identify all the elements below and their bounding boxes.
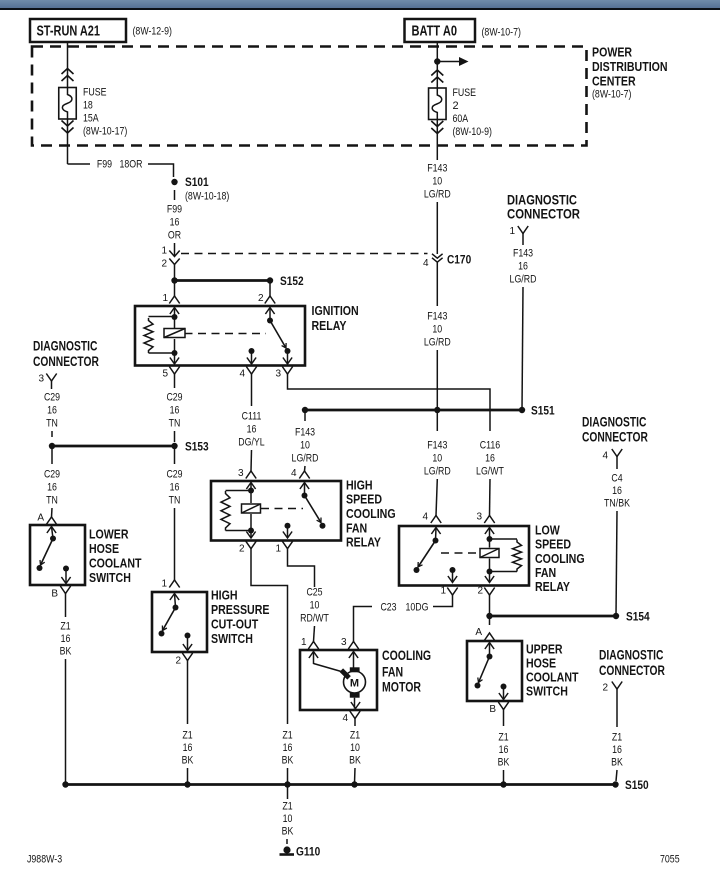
svg-text:HIGH: HIGH	[211, 589, 238, 603]
svg-text:(8W-10-7): (8W-10-7)	[482, 27, 521, 39]
splice S152	[171, 277, 177, 283]
dashed actuator link (ignition relay)	[185, 333, 267, 335]
svg-text:16: 16	[283, 742, 293, 754]
svg-text:60A: 60A	[453, 113, 469, 125]
wire F99 16 OR from S101 to connector	[174, 190, 176, 200]
svg-text:2: 2	[239, 544, 245, 555]
svg-text:16: 16	[170, 405, 180, 417]
svg-text:BK: BK	[282, 826, 294, 838]
ignition relay pin 4	[246, 367, 256, 375]
svg-text:(8W-12-9): (8W-12-9)	[133, 26, 172, 38]
svg-text:15A: 15A	[83, 113, 99, 125]
svg-text:1: 1	[275, 544, 281, 555]
svg-text:A: A	[475, 627, 482, 638]
svg-text:2: 2	[453, 100, 459, 112]
svg-text:4: 4	[602, 451, 608, 462]
svg-text:TN/BK: TN/BK	[604, 498, 630, 510]
wire ST-RUN A21 to fuse 18	[67, 42, 69, 88]
svg-text:BK: BK	[349, 755, 361, 767]
svg-text:10: 10	[300, 440, 310, 452]
relay: high speed cooling fan relay	[211, 481, 341, 541]
svg-text:F99: F99	[167, 204, 182, 216]
wire S152 to ignition relay pin 2	[269, 281, 271, 297]
svg-text:FUSE: FUSE	[453, 87, 477, 99]
svg-text:(8W-10-9): (8W-10-9)	[453, 126, 492, 138]
svg-text:1: 1	[161, 579, 167, 590]
svg-text:A: A	[37, 513, 44, 524]
svg-text:F143: F143	[427, 440, 447, 452]
high pressure switch pin 2	[182, 653, 192, 661]
svg-text:Z1: Z1	[498, 732, 508, 744]
svg-text:F143: F143	[513, 248, 533, 260]
svg-text:OR: OR	[168, 230, 181, 242]
wire F99 18OR from fuse 18 to S101	[67, 127, 69, 164]
svg-text:16: 16	[612, 485, 622, 497]
svg-text:LG/RD: LG/RD	[424, 189, 451, 201]
svg-text:LG/RD: LG/RD	[292, 453, 319, 465]
low speed relay pin 2	[484, 588, 494, 596]
svg-text:TN: TN	[46, 495, 58, 507]
svg-text:LG/RD: LG/RD	[424, 466, 451, 478]
svg-text:S101: S101	[185, 177, 209, 189]
svg-text:Z1: Z1	[350, 730, 360, 742]
svg-text:HOSE: HOSE	[526, 657, 556, 671]
svg-text:BK: BK	[60, 646, 72, 658]
svg-text:LG/RD: LG/RD	[424, 337, 451, 349]
svg-text:DIAGNOSTIC: DIAGNOSTIC	[33, 339, 98, 354]
node BATT A0 feed	[405, 19, 476, 42]
svg-text:C29: C29	[44, 469, 60, 481]
dashed actuator link (high speed relay)	[261, 508, 303, 510]
svg-text:2: 2	[477, 586, 483, 597]
switch: lower hose coolant switch	[30, 525, 85, 585]
svg-text:Z1: Z1	[60, 621, 70, 633]
wire C29 16 TN from S153 to lower hose coolant switch	[51, 446, 53, 464]
relay: low speed cooling fan relay	[399, 526, 529, 586]
svg-text:16: 16	[499, 744, 509, 756]
svg-text:4: 4	[291, 468, 297, 479]
ignition relay pin 5	[169, 367, 179, 375]
svg-text:3: 3	[38, 374, 44, 385]
svg-text:PRESSURE: PRESSURE	[211, 603, 270, 617]
svg-text:B: B	[489, 704, 496, 715]
svg-text:HOSE: HOSE	[89, 542, 119, 556]
svg-text:10: 10	[310, 600, 320, 612]
wire F143 10 LG/RD from C170 to S151	[436, 262, 438, 306]
svg-text:3: 3	[476, 512, 482, 523]
svg-text:BK: BK	[282, 755, 294, 767]
svg-text:CONNECTOR: CONNECTOR	[507, 207, 580, 222]
wire Z1 16 BK high pressure switch to S150	[187, 668, 189, 724]
svg-text:2: 2	[602, 683, 608, 694]
svg-text:SPEED: SPEED	[346, 493, 382, 507]
svg-text:16: 16	[518, 261, 528, 273]
svg-text:C23: C23	[380, 602, 396, 614]
switch contacts of high speed relay	[300, 483, 309, 490]
svg-text:18: 18	[83, 100, 93, 112]
svg-text:RELAY: RELAY	[535, 580, 571, 594]
svg-text:4: 4	[239, 369, 245, 380]
svg-text:G110: G110	[296, 847, 320, 859]
wire C23 10DG low speed relay pin 1 to fan motor pin 3	[433, 598, 453, 607]
motor: cooling fan motor	[300, 650, 377, 710]
svg-text:TN: TN	[169, 495, 181, 507]
svg-text:Z1: Z1	[612, 732, 622, 744]
svg-text:LOWER: LOWER	[89, 528, 129, 542]
svg-text:2: 2	[161, 259, 167, 270]
wire C29 16 TN from ignition relay pin 5 to S153	[174, 382, 176, 388]
svg-text:Z1: Z1	[182, 730, 192, 742]
wire S152 to ignition relay pin 1	[174, 281, 176, 297]
svg-text:16: 16	[247, 424, 257, 436]
svg-text:10: 10	[350, 742, 360, 754]
svg-text:COOLANT: COOLANT	[89, 557, 142, 571]
wire Z1 16 BK upper hose switch to S150	[503, 717, 505, 726]
svg-text:Z1: Z1	[282, 801, 292, 813]
svg-text:F99: F99	[97, 159, 112, 171]
svg-text:TN: TN	[169, 418, 181, 430]
svg-text:CONNECTOR: CONNECTOR	[33, 354, 99, 369]
svg-text:4: 4	[422, 512, 428, 523]
wire from BATT A0 with branch arrow	[436, 42, 438, 88]
svg-text:FAN: FAN	[382, 665, 403, 680]
svg-text:10: 10	[283, 813, 293, 825]
svg-text:16: 16	[170, 217, 180, 229]
splice S101	[171, 179, 177, 185]
svg-text:ST-RUN A21: ST-RUN A21	[37, 23, 101, 40]
svg-text:C25: C25	[306, 587, 322, 599]
coil of high speed relay	[242, 504, 261, 513]
power distribution center enclosure	[32, 47, 587, 146]
upper hose switch pin B	[498, 702, 508, 710]
svg-text:1: 1	[161, 246, 167, 257]
svg-text:M: M	[350, 678, 359, 690]
svg-text:C111: C111	[242, 411, 262, 423]
svg-text:Z1: Z1	[282, 730, 292, 742]
svg-text:LOW: LOW	[535, 524, 560, 538]
svg-text:S151: S151	[531, 406, 555, 418]
svg-text:2: 2	[258, 293, 264, 304]
high speed relay pin 1	[282, 541, 292, 549]
svg-text:RD/WT: RD/WT	[300, 613, 329, 625]
svg-text:TN: TN	[46, 418, 58, 430]
svg-text:IGNITION: IGNITION	[312, 304, 359, 318]
svg-text:16: 16	[612, 744, 622, 756]
svg-text:S150: S150	[625, 780, 649, 792]
splice S153	[49, 443, 55, 449]
fuse F18 15A	[59, 88, 77, 120]
dashed connector interface line	[181, 253, 428, 255]
svg-text:4: 4	[342, 713, 348, 724]
wire Z1 16 BK lower hose switch to S150	[65, 601, 67, 617]
svg-text:3: 3	[341, 637, 347, 648]
svg-text:16: 16	[183, 742, 193, 754]
fan motor armature	[344, 671, 366, 693]
svg-text:4: 4	[423, 258, 429, 269]
dashed actuator link (low speed relay)	[441, 552, 480, 554]
high speed relay pin 2	[246, 541, 256, 549]
svg-text:COOLING: COOLING	[346, 507, 396, 521]
splice S154	[486, 613, 492, 619]
svg-text:F143: F143	[427, 163, 447, 175]
wire C116 16 LG/WT ignition relay pin 3 to low speed relay pin 3	[288, 382, 491, 431]
svg-text:CONNECTOR: CONNECTOR	[582, 430, 648, 445]
svg-text:7055: 7055	[660, 854, 680, 866]
svg-text:16: 16	[485, 453, 495, 465]
svg-text:3: 3	[275, 369, 281, 380]
wire Z1 10 BK bus to ground	[287, 785, 289, 800]
fan motor pin 4	[350, 711, 360, 719]
svg-text:FUSE: FUSE	[83, 87, 107, 99]
svg-text:(8W-10-18): (8W-10-18)	[185, 191, 229, 203]
svg-text:SWITCH: SWITCH	[89, 571, 131, 585]
connector C170 pin 4	[432, 254, 443, 258]
svg-text:1: 1	[509, 226, 515, 237]
svg-text:DG/YL: DG/YL	[238, 437, 264, 449]
svg-text:DIAGNOSTIC: DIAGNOSTIC	[507, 193, 577, 208]
svg-text:COOLING: COOLING	[382, 648, 431, 663]
wire Z1 16 BK high speed relay pin 2 to S150 and G110 column	[251, 556, 288, 724]
ground G110	[283, 846, 290, 853]
svg-text:MOTOR: MOTOR	[382, 680, 421, 695]
svg-text:C4: C4	[611, 473, 622, 485]
svg-text:BATT A0: BATT A0	[412, 23, 458, 40]
switch: upper hose coolant switch	[467, 641, 522, 701]
svg-text:10: 10	[432, 176, 442, 188]
svg-text:S154: S154	[626, 612, 650, 624]
svg-text:CENTER: CENTER	[592, 75, 636, 89]
svg-text:CUT-OUT: CUT-OUT	[211, 618, 258, 632]
wire S154 to upper hose coolant switch pin A	[489, 616, 491, 625]
svg-text:(8W-10-17): (8W-10-17)	[83, 126, 127, 138]
wire C29 16 TN from S153 to high pressure switch	[174, 446, 176, 464]
svg-text:DIAGNOSTIC: DIAGNOSTIC	[582, 415, 647, 430]
svg-text:F143: F143	[427, 311, 447, 323]
svg-text:LG/WT: LG/WT	[476, 466, 504, 478]
wire F143 10 LG/RD from S151 to high speed relay pin 4	[304, 410, 306, 421]
svg-text:2: 2	[175, 656, 181, 667]
wire C25 10 RD/WT high speed relay pin 1 to fan motor pin 1	[288, 556, 315, 587]
switch: high pressure cut-out switch	[152, 592, 207, 652]
svg-text:HIGH: HIGH	[346, 479, 373, 493]
relay: ignition relay	[135, 306, 305, 366]
svg-text:FAN: FAN	[346, 522, 367, 536]
svg-text:BK: BK	[498, 757, 510, 769]
svg-text:UPPER: UPPER	[526, 643, 563, 657]
svg-text:B: B	[51, 589, 58, 600]
svg-text:S152: S152	[280, 276, 304, 288]
svg-text:10: 10	[432, 453, 442, 465]
svg-text:C170: C170	[447, 255, 471, 267]
svg-text:10: 10	[432, 324, 442, 336]
splice S151	[302, 407, 308, 413]
svg-text:1: 1	[162, 293, 168, 304]
switch contacts of ignition relay	[265, 308, 274, 315]
svg-text:RELAY: RELAY	[312, 319, 348, 333]
svg-text:16: 16	[47, 482, 57, 494]
coil branch of low speed relay	[485, 528, 494, 535]
svg-text:FAN: FAN	[535, 566, 556, 580]
svg-text:16: 16	[61, 633, 71, 645]
svg-text:J988W-3: J988W-3	[27, 854, 62, 866]
svg-text:LG/RD: LG/RD	[510, 274, 537, 286]
svg-text:SPEED: SPEED	[535, 538, 571, 552]
svg-text:RELAY: RELAY	[346, 536, 382, 550]
svg-text:CONNECTOR: CONNECTOR	[599, 663, 665, 678]
svg-text:POWER: POWER	[592, 46, 632, 60]
svg-text:5: 5	[162, 369, 168, 380]
ignition relay pin 3	[282, 367, 292, 375]
svg-text:SWITCH: SWITCH	[526, 685, 568, 699]
svg-text:3: 3	[238, 468, 244, 479]
svg-text:(8W-10-7): (8W-10-7)	[592, 89, 631, 101]
wire F143 10 LG/RD fuse 2 to C170	[436, 128, 438, 161]
svg-text:18OR: 18OR	[120, 159, 143, 171]
svg-text:C29: C29	[166, 392, 182, 404]
wire F143 10 LG/RD from S151 to low speed relay pin 4	[436, 410, 438, 431]
svg-text:10DG: 10DG	[406, 602, 429, 614]
wire C111 16 DG/YL ignition relay pin 4 to high speed relay pin 3	[251, 382, 253, 406]
coil of ignition relay	[164, 329, 185, 338]
svg-text:16: 16	[170, 482, 180, 494]
svg-text:SWITCH: SWITCH	[211, 632, 253, 646]
svg-text:S153: S153	[185, 442, 209, 454]
svg-text:C29: C29	[44, 392, 60, 404]
svg-text:COOLING: COOLING	[535, 552, 585, 566]
svg-text:BK: BK	[182, 755, 194, 767]
svg-text:C29: C29	[166, 469, 182, 481]
svg-text:1: 1	[301, 637, 307, 648]
switch contacts of low speed relay	[431, 528, 440, 535]
svg-text:1: 1	[440, 586, 446, 597]
svg-text:C116: C116	[480, 440, 500, 452]
svg-text:F143: F143	[295, 427, 315, 439]
svg-text:BK: BK	[611, 757, 623, 769]
svg-text:COOLANT: COOLANT	[526, 671, 579, 685]
node ST-RUN A21 feed	[30, 19, 126, 42]
fuse F2 60A	[429, 88, 447, 120]
svg-text:DISTRIBUTION: DISTRIBUTION	[592, 60, 668, 74]
svg-text:DIAGNOSTIC: DIAGNOSTIC	[599, 648, 664, 663]
ground bus splice S150	[66, 783, 616, 786]
lower hose switch pin B	[60, 586, 70, 594]
svg-text:16: 16	[47, 405, 57, 417]
low speed relay pin 1	[447, 588, 457, 596]
